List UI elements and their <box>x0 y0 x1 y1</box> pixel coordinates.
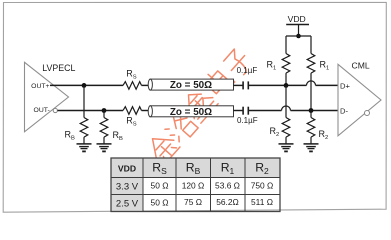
svg-text:OUT+: OUT+ <box>31 83 49 90</box>
svg-text:VDD: VDD <box>118 163 136 173</box>
resistor RB2 <box>100 118 108 138</box>
node junction dot on OUT+ <box>82 83 87 88</box>
wire RB1 to ground <box>83 137 85 144</box>
wire R2b to ground <box>310 137 312 144</box>
wire RB1 vertical <box>83 85 85 117</box>
ground for RB2 <box>97 144 112 152</box>
svg-text:2.5 V: 2.5 V <box>116 198 139 209</box>
pin bubble on CML lower edge <box>365 111 370 116</box>
watermark char 洛 <box>163 111 198 146</box>
resistor R1a <box>282 54 290 74</box>
svg-text:R2: R2 <box>270 126 280 138</box>
wire RB2 to ground <box>103 137 105 144</box>
resistor R1b <box>307 54 315 74</box>
wire TL1 to C1 <box>234 84 243 86</box>
node junction dot on OUT- <box>102 108 107 113</box>
wire RB2 vertical <box>103 111 105 118</box>
resistor R2b <box>307 118 315 138</box>
svg-text:50 Ω: 50 Ω <box>151 198 169 208</box>
wire VDD to R1b <box>310 36 312 54</box>
svg-text:0.1µF: 0.1µF <box>237 66 258 75</box>
watermark char 金 <box>144 129 181 166</box>
resistor RS1 (top series) <box>123 82 142 90</box>
capacitor C2 0.1uF bottom <box>243 107 248 115</box>
wire OUT+ to RS1 <box>50 84 123 86</box>
svg-text:53.6 Ω: 53.6 Ω <box>215 180 240 190</box>
svg-text:Zo = 50Ω: Zo = 50Ω <box>170 80 212 91</box>
svg-text:LVPECL: LVPECL <box>42 63 75 73</box>
svg-text:750 Ω: 750 Ω <box>251 180 274 190</box>
svg-text:RB: RB <box>113 130 124 142</box>
svg-text:0.1µF: 0.1µF <box>237 116 258 125</box>
watermark char 子 <box>222 48 253 79</box>
node junction dot R1b/D- <box>309 108 314 113</box>
node junction dot R1a/D+ <box>284 83 289 88</box>
svg-text:120 Ω: 120 Ω <box>182 180 205 190</box>
svg-text:75 Ω: 75 Ω <box>184 197 202 207</box>
wire VDD rail connector <box>286 35 311 37</box>
wire TL2 to C2 <box>234 110 243 112</box>
op-amp U2 CML receiver triangle <box>338 64 381 136</box>
pin bubble OUT- <box>53 108 57 112</box>
transmission line TL2 Zo=50 bottom <box>148 106 233 117</box>
capacitor C1 0.1uF top <box>243 81 248 89</box>
watermark 金洛鑫电子 <box>144 48 254 166</box>
watermark char 鑫 <box>179 84 219 124</box>
node VDD junction dot <box>296 34 301 39</box>
svg-text:R1: R1 <box>267 59 277 71</box>
wire C2 to D- <box>248 110 338 112</box>
op-amp U1 LVPECL driver triangle <box>25 62 69 132</box>
ground for R2a <box>279 144 294 152</box>
transmission line TL1 Zo=50 top <box>148 79 233 90</box>
table grid <box>111 158 280 212</box>
svg-text:RS: RS <box>126 68 137 80</box>
wire D+ node down to R2a <box>285 85 287 117</box>
svg-text:511 Ω: 511 Ω <box>251 197 273 207</box>
watermark char 电 <box>202 65 235 97</box>
svg-text:RS: RS <box>126 116 137 128</box>
svg-text:R1: R1 <box>320 59 330 71</box>
wire VDD stub <box>298 25 300 37</box>
svg-text:Zo = 50Ω: Zo = 50Ω <box>170 107 212 118</box>
svg-text:VDD: VDD <box>288 14 306 24</box>
svg-text:R2: R2 <box>319 129 329 141</box>
ground for RB1 <box>77 144 92 152</box>
svg-text:RB: RB <box>65 129 76 141</box>
wire VDD to R1a <box>285 36 287 54</box>
svg-text:D+: D+ <box>340 81 350 90</box>
svg-text:CML: CML <box>352 61 370 71</box>
wire R1a to D+ node <box>285 73 287 85</box>
svg-text:56.2Ω: 56.2Ω <box>216 197 239 207</box>
resistor RB1 <box>80 118 88 138</box>
wire R2a to ground <box>285 137 287 144</box>
wire RS1 to TL1 <box>142 84 151 86</box>
wire hop on D+ over R1b branch <box>307 81 316 86</box>
svg-text:3.3 V: 3.3 V <box>116 181 139 192</box>
svg-text:D-: D- <box>340 106 348 115</box>
table of component values <box>111 158 280 212</box>
wire C1 to D+ <box>248 84 338 86</box>
svg-text:50 Ω: 50 Ω <box>151 180 169 190</box>
wire RS2 to TL2 <box>142 110 151 112</box>
wire hop on D- over R2a branch <box>282 106 291 111</box>
svg-text:OUT-: OUT- <box>34 107 50 114</box>
resistor RS2 (bottom series) <box>123 107 142 115</box>
resistor R2a <box>282 118 290 138</box>
wire R1b through D+ down to D- node <box>310 73 312 110</box>
wire D- node down to R2b <box>310 111 312 118</box>
wire OUT- to RS2 <box>58 110 124 112</box>
ground for R2b <box>304 144 319 152</box>
table shading <box>111 158 280 178</box>
